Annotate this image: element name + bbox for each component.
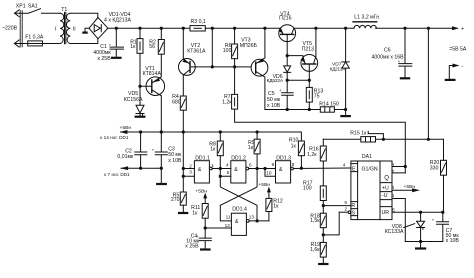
svg-text:56: 56	[149, 44, 155, 50]
svg-text:-U: -U	[382, 193, 388, 199]
svg-text:КТ814А: КТ814А	[143, 71, 162, 77]
svg-text:КС133А: КС133А	[385, 229, 404, 235]
svg-text:&: &	[235, 219, 239, 225]
svg-text:6: 6	[345, 200, 348, 205]
svg-text:11: 11	[226, 214, 231, 219]
svg-text:8: 8	[292, 162, 295, 167]
svg-text:C6: C6	[384, 48, 391, 54]
svg-text:1,5к: 1,5к	[310, 218, 320, 224]
svg-text:1: 1	[392, 193, 395, 198]
svg-text:6: 6	[249, 163, 252, 168]
svg-text:DD1.4: DD1.4	[232, 207, 247, 213]
svg-text:DD1.1: DD1.1	[195, 155, 210, 161]
svg-text:L1 3,2 мГн: L1 3,2 мГн	[354, 15, 379, 21]
svg-text:DD1.2: DD1.2	[231, 155, 246, 161]
svg-text:100: 100	[223, 48, 232, 54]
svg-text:&: &	[234, 167, 238, 173]
svg-text:х 25В: х 25В	[97, 56, 111, 62]
svg-text:1: 1	[211, 163, 214, 168]
svg-text:2: 2	[345, 207, 348, 212]
svg-text:+5Вн: +5Вн	[404, 184, 416, 190]
svg-text:3: 3	[189, 170, 192, 175]
svg-text:R15 1к: R15 1к	[350, 130, 367, 136]
svg-text:SA1: SA1	[28, 3, 38, 9]
svg-text:100: 100	[303, 186, 312, 192]
svg-text:1к: 1к	[291, 143, 297, 149]
svg-text:+5Вн: +5Вн	[120, 125, 132, 131]
svg-text:х 25В: х 25В	[185, 243, 199, 249]
svg-text:х 10В: х 10В	[446, 238, 460, 244]
svg-text:UR: UR	[382, 210, 390, 216]
svg-text:4000мк: 4000мк	[93, 50, 111, 56]
svg-text:C1: C1	[100, 44, 107, 50]
svg-text:II: II	[73, 27, 76, 33]
svg-text:1к: 1к	[248, 145, 254, 151]
svg-text:C5: C5	[268, 91, 275, 97]
svg-text:1,6к: 1,6к	[310, 247, 320, 253]
svg-text:8: 8	[391, 185, 394, 190]
svg-text:T1: T1	[61, 7, 67, 13]
svg-text:R14 150: R14 150	[319, 101, 339, 107]
svg-text:1к: 1к	[192, 211, 198, 217]
svg-text:5: 5	[227, 170, 230, 175]
svg-text:DA1: DA1	[362, 154, 372, 160]
svg-text:9: 9	[272, 162, 275, 167]
svg-text:П213: П213	[302, 47, 314, 53]
svg-text:5: 5	[392, 208, 395, 213]
svg-text:х 10В: х 10В	[168, 158, 182, 164]
svg-text:&: &	[198, 167, 202, 173]
svg-text:G1/GN: G1/GN	[362, 166, 378, 172]
svg-text:75: 75	[314, 94, 320, 100]
svg-text:1к: 1к	[210, 146, 216, 152]
svg-text:1к: 1к	[273, 204, 279, 210]
svg-text:330: 330	[430, 166, 439, 172]
svg-text:4 х КД213А: 4 х КД213А	[104, 17, 132, 23]
svg-text:-: -	[462, 64, 464, 70]
svg-text:0,01мк: 0,01мк	[117, 154, 134, 160]
svg-text:2: 2	[189, 163, 192, 168]
svg-text:1к: 1к	[130, 44, 136, 50]
svg-text:I: I	[55, 27, 56, 33]
svg-text:4: 4	[226, 162, 229, 167]
svg-text:КД522А: КД522А	[267, 78, 284, 84]
svg-text:к 14 ног. DD1: к 14 ног. DD1	[100, 135, 129, 140]
svg-text:МП26Б: МП26Б	[240, 43, 258, 49]
svg-text:+5Вн: +5Вн	[258, 182, 270, 188]
svg-text:1,2к: 1,2к	[222, 99, 232, 105]
svg-text:10: 10	[266, 171, 272, 176]
svg-text:&: &	[279, 167, 283, 173]
svg-text:680: 680	[172, 100, 181, 106]
svg-text:3: 3	[392, 162, 395, 167]
svg-text:13: 13	[249, 214, 255, 219]
svg-text:+5Вн: +5Вн	[195, 188, 207, 194]
svg-text:х 10В: х 10В	[267, 103, 281, 109]
svg-text:XP1: XP1	[16, 3, 26, 9]
svg-text:270: 270	[171, 197, 180, 203]
svg-text:+U: +U	[382, 185, 389, 191]
svg-text:КД213А: КД213А	[330, 67, 346, 72]
svg-text:к 7 ног. DD1: к 7 ног. DD1	[104, 172, 130, 177]
svg-text:F1 0,3А: F1 0,3А	[25, 34, 44, 40]
svg-text:12: 12	[225, 223, 231, 228]
svg-text:R3 0,1: R3 0,1	[191, 19, 206, 25]
svg-text:7: 7	[392, 169, 395, 174]
svg-text:П216: П216	[279, 16, 291, 22]
svg-text:Q: Q	[384, 175, 389, 181]
svg-text:=5В 5А: =5В 5А	[449, 47, 467, 53]
svg-text:+: +	[461, 27, 464, 33]
svg-text:DD1.3: DD1.3	[276, 156, 291, 162]
svg-text:E: E	[352, 166, 356, 172]
svg-text:S: S	[352, 210, 356, 216]
svg-text:4: 4	[343, 162, 346, 167]
svg-text:R: R	[351, 203, 355, 209]
svg-text:1,2к: 1,2к	[307, 152, 317, 158]
svg-text:~220В: ~220В	[2, 25, 18, 31]
svg-text:КТ361А: КТ361А	[187, 49, 206, 55]
svg-text:КС156А: КС156А	[124, 97, 143, 103]
